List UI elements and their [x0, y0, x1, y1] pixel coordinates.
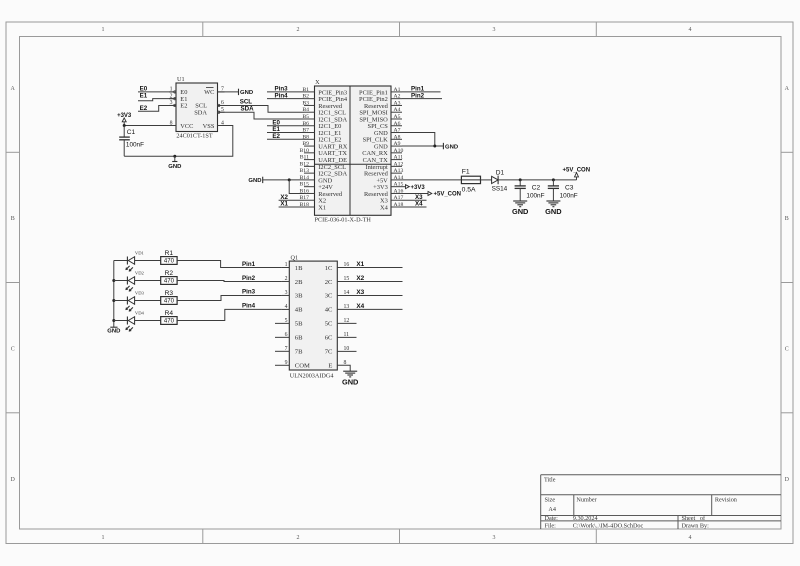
svg-text:2: 2 [297, 27, 300, 33]
svg-text:1: 1 [102, 27, 105, 33]
svg-text:Pin2: Pin2 [242, 275, 256, 282]
svg-text:A17: A17 [394, 195, 404, 201]
svg-text:1: 1 [285, 262, 288, 268]
svg-text:A13: A13 [394, 168, 404, 174]
power +3V3 [117, 113, 132, 126]
svg-text:VD2: VD2 [135, 271, 145, 276]
svg-text:B13: B13 [300, 168, 310, 174]
svg-text:VD3: VD3 [135, 291, 145, 296]
svg-text:2B: 2B [295, 279, 303, 286]
svg-text:SDA: SDA [194, 109, 207, 116]
svg-text:A15: A15 [394, 182, 404, 188]
ground GND at X.A9 [443, 143, 458, 151]
svg-text:Pin4: Pin4 [242, 303, 256, 310]
wire Q1 E pin8 to GND [337, 365, 350, 371]
svg-text:3B: 3B [295, 293, 303, 300]
capacitor C3 100nF [548, 180, 578, 201]
svg-text:4C: 4C [325, 307, 333, 314]
svg-text:6: 6 [285, 332, 288, 338]
svg-text:GND: GND [512, 207, 529, 216]
wire Q1 4C to X4 [337, 303, 402, 310]
svg-text:SS14: SS14 [492, 186, 508, 193]
junction GND B14 [288, 178, 291, 181]
svg-text:Pin4: Pin4 [275, 92, 289, 99]
wire F1 to D1 [481, 179, 492, 181]
svg-text:B: B [11, 216, 15, 222]
wire VD2 to R2 [135, 280, 161, 282]
svg-text:X4: X4 [356, 303, 364, 310]
svg-text:4: 4 [689, 27, 692, 33]
capacitor C2 100nF [515, 180, 545, 201]
svg-text:E: E [328, 363, 332, 370]
svg-text:470: 470 [164, 319, 175, 325]
svg-text:A2: A2 [394, 94, 401, 100]
svg-text:6B: 6B [295, 335, 303, 342]
svg-text:100nF: 100nF [126, 142, 144, 149]
svg-text:U1: U1 [177, 76, 185, 83]
svg-text:A9: A9 [394, 141, 401, 147]
svg-text:12: 12 [344, 318, 350, 324]
GND bus for LEDs [113, 261, 115, 328]
svg-text:A11: A11 [394, 155, 404, 161]
svg-text:2: 2 [285, 276, 288, 282]
svg-text:A5: A5 [394, 114, 401, 120]
svg-text:7B: 7B [295, 349, 303, 356]
svg-text:GND: GND [107, 329, 120, 335]
svg-text:A18: A18 [394, 202, 404, 208]
svg-text:C: C [785, 347, 789, 353]
svg-text:C2: C2 [532, 185, 541, 192]
svg-text:470: 470 [164, 259, 175, 265]
svg-text:R1: R1 [165, 250, 174, 257]
transistor array Q1 ULN2003AIDG4 body [289, 255, 337, 380]
wire SDA U1 pin5 to X.B5 [218, 105, 305, 119]
svg-text:X1: X1 [318, 204, 326, 211]
diode D1 SS14 [492, 169, 508, 192]
svg-text:E0: E0 [140, 85, 148, 92]
svg-text:2: 2 [297, 535, 300, 541]
net label E2 wire to U1 pin3 [138, 105, 176, 112]
ground GND under C3 [545, 201, 562, 216]
svg-text:B9: B9 [302, 141, 309, 147]
junction GND A7/A9 [433, 145, 436, 148]
wire X2 to X.B17 [279, 194, 304, 201]
svg-text:1C: 1C [325, 265, 333, 272]
wire VD1 to R1 [135, 260, 161, 262]
svg-text:D: D [785, 477, 790, 483]
svg-text:C: C [11, 347, 15, 353]
wire R3 to Q1 3B net Pin3 [177, 289, 282, 301]
svg-text:Pin3: Pin3 [242, 289, 256, 296]
svg-text:WC: WC [204, 89, 214, 96]
svg-text:1: 1 [102, 535, 105, 541]
svg-text:PCIE-036-01-X-D-TH: PCIE-036-01-X-D-TH [315, 216, 372, 223]
svg-text:4: 4 [689, 535, 692, 541]
svg-text:B5: B5 [302, 114, 309, 120]
svg-text:C3: C3 [565, 185, 574, 192]
LED VD3 [112, 291, 144, 312]
junction +3V3/C1/VCC [123, 124, 126, 127]
svg-text:9: 9 [285, 360, 288, 366]
power +3V3 at X.A15 [402, 185, 425, 191]
wire VD4 to R4 [135, 320, 161, 322]
power +5V_CON at X.A16 [402, 191, 461, 197]
wire Q1 1C to X1 [337, 261, 402, 268]
LED VD1 [114, 251, 145, 272]
ground GND at U1 WC [239, 89, 254, 97]
svg-text:470: 470 [164, 279, 175, 285]
svg-text:File:: File: [545, 523, 557, 530]
ground GND at X.B14 [248, 177, 262, 185]
svg-text:4: 4 [285, 304, 288, 310]
svg-text:A4: A4 [548, 506, 556, 513]
svg-text:10: 10 [344, 346, 350, 352]
svg-text:R2: R2 [165, 270, 174, 277]
wire X.A17 to X3 [402, 194, 427, 201]
svg-text:E2: E2 [180, 103, 187, 110]
svg-text:A8: A8 [394, 134, 401, 140]
svg-text:24C01CT-1ST: 24C01CT-1ST [176, 133, 212, 140]
svg-text:VD1: VD1 [135, 251, 145, 256]
svg-text:6C: 6C [325, 335, 333, 342]
svg-text:B11: B11 [300, 155, 309, 161]
svg-text:2C: 2C [325, 279, 333, 286]
svg-text:A10: A10 [394, 148, 404, 154]
svg-text:B4: B4 [302, 107, 309, 113]
svg-text:GND: GND [342, 377, 359, 386]
svg-text:3: 3 [285, 290, 288, 296]
svg-text:B3: B3 [302, 100, 309, 106]
svg-text:A3: A3 [394, 100, 401, 106]
svg-text:R3: R3 [165, 290, 174, 297]
svg-text:Size: Size [545, 497, 556, 504]
svg-text:B15: B15 [300, 182, 310, 188]
ground GND at LED bus [107, 327, 120, 334]
wire X.A2 to Pin2 [402, 92, 442, 99]
svg-text:X3: X3 [356, 289, 364, 296]
resistor R2 470 [161, 270, 177, 285]
junction C3 [552, 178, 555, 181]
svg-text:A16: A16 [394, 188, 404, 194]
Q1 pins [275, 262, 357, 370]
wire X.A1 to Pin1 [402, 86, 441, 93]
svg-text:X2: X2 [356, 275, 364, 282]
svg-text:11: 11 [344, 332, 350, 338]
svg-text:3: 3 [493, 535, 496, 541]
net label E0 wire to U1 pin1 [138, 85, 176, 92]
svg-text:+3V3: +3V3 [411, 185, 426, 191]
svg-text:D1: D1 [496, 169, 505, 176]
svg-text:B: B [785, 216, 789, 222]
svg-text:X1: X1 [356, 261, 364, 268]
svg-text:C:\Work\..\IM-4DO.SchDoc: C:\Work\..\IM-4DO.SchDoc [573, 523, 644, 530]
connector X pin names and numbers [300, 87, 404, 211]
svg-text:X1: X1 [280, 201, 288, 208]
svg-text:GND: GND [248, 178, 261, 184]
svg-text:5: 5 [285, 318, 288, 324]
LED VD2 [112, 271, 144, 292]
svg-text:Pin2: Pin2 [411, 92, 425, 99]
svg-text:GND: GND [240, 90, 253, 96]
wire R2 to Q1 2B net Pin2 [177, 275, 282, 282]
svg-text:R4: R4 [165, 310, 174, 317]
svg-text:COM: COM [295, 363, 310, 370]
svg-text:5C: 5C [325, 321, 333, 328]
wire Pin4 to X.B2 [267, 92, 304, 99]
svg-text:GND: GND [168, 164, 181, 170]
svg-text:7: 7 [285, 346, 288, 352]
net label E1 wire to U1 pin2 [138, 93, 176, 101]
wire X.A18 to X4 [402, 201, 427, 208]
resistor R1 470 [161, 250, 177, 265]
svg-text:E2: E2 [140, 105, 148, 112]
wire +3V3 to U1 VCC pin8 [124, 125, 176, 127]
wire +5V rail X.A14 to F1 [402, 179, 462, 181]
svg-text:A1: A1 [394, 87, 401, 93]
svg-text:E1: E1 [140, 93, 148, 100]
svg-text:B10: B10 [300, 148, 310, 154]
svg-text:5B: 5B [295, 321, 303, 328]
svg-text:VCC: VCC [180, 123, 193, 130]
svg-text:C1: C1 [127, 129, 136, 136]
wire Q1 2C to X2 [337, 275, 402, 282]
svg-text:GND: GND [445, 144, 458, 150]
svg-text:4B: 4B [295, 307, 303, 314]
wire E0 to X.B6 [267, 119, 304, 126]
svg-text:1B: 1B [295, 265, 303, 272]
wire X.A9 GND [402, 145, 443, 147]
svg-text:100nF: 100nF [560, 192, 578, 199]
wire D1 to +5V_CON [498, 179, 576, 181]
svg-text:ULN2003AIDG4: ULN2003AIDG4 [290, 373, 334, 380]
connector X PCIE-036-01-X-D-TH body [315, 79, 392, 223]
svg-text:0.5A: 0.5A [462, 186, 476, 193]
svg-text:A6: A6 [394, 121, 401, 127]
svg-text:E2: E2 [272, 133, 280, 140]
IC U1 24C01CT-1ST EEPROM body [169, 76, 225, 140]
ground GND under U1 [168, 156, 181, 170]
wire Q1 3C to X3 [337, 289, 402, 296]
svg-text:3: 3 [493, 27, 496, 33]
wire X1 to X.B18 [279, 201, 304, 208]
fuse F1 0.5A [461, 169, 480, 194]
resistor R3 470 [161, 290, 177, 305]
svg-text:Date:: Date: [545, 515, 559, 522]
svg-text:VD4: VD4 [135, 311, 145, 316]
svg-text:Number: Number [576, 497, 596, 504]
svg-text:SDA: SDA [241, 105, 255, 112]
svg-text:9.30.2024: 9.30.2024 [573, 515, 598, 522]
svg-text:GND: GND [545, 207, 562, 216]
wire E1 to X.B7 [267, 126, 304, 133]
wire VD3 to R3 [135, 300, 161, 302]
wire GND rail C1 to U1 VSS pin4 [124, 126, 233, 157]
wire E2 to X.B8 [267, 133, 304, 140]
svg-text:X4: X4 [415, 201, 423, 208]
svg-text:Revision: Revision [715, 497, 737, 504]
svg-text:A14: A14 [394, 175, 404, 181]
resistor R4 470 [161, 310, 177, 325]
ground GND at Q1 E [342, 371, 359, 386]
svg-text:A4: A4 [394, 107, 401, 113]
wire R1 to Q1 1B net Pin1 [177, 261, 282, 268]
wire X.A7 GND down to A9 [402, 133, 435, 147]
svg-text:F1: F1 [462, 169, 470, 176]
svg-text:Sheet of: Sheet of [682, 515, 706, 522]
svg-text:A12: A12 [394, 161, 404, 167]
svg-text:A7: A7 [394, 128, 401, 134]
junction C2 [519, 178, 522, 181]
capacitor C1 100nF [119, 126, 144, 157]
svg-text:D: D [11, 477, 16, 483]
junction GND rail [173, 155, 176, 158]
svg-text:Pin1: Pin1 [242, 261, 256, 268]
svg-text:VSS: VSS [203, 123, 215, 130]
svg-text:Drawn By:: Drawn By: [682, 523, 710, 530]
svg-text:3C: 3C [325, 293, 333, 300]
power +5V_CON at rail end [563, 167, 591, 180]
svg-text:A: A [785, 86, 790, 92]
svg-text:+5V_CON: +5V_CON [563, 167, 591, 173]
ground GND under C2 [512, 201, 529, 216]
wire GND to X.B14 [263, 179, 304, 181]
svg-text:Q1: Q1 [291, 255, 299, 262]
svg-text:B12: B12 [300, 161, 310, 167]
wire GND branch to X.B16 [289, 180, 304, 194]
svg-text:A: A [11, 86, 16, 92]
svg-text:X: X [315, 79, 320, 86]
svg-text:100nF: 100nF [526, 192, 544, 199]
wire R4 to Q1 4B net Pin4 [177, 303, 282, 321]
wire U1 WC pin7 to GND [218, 91, 239, 93]
svg-text:+5V_CON: +5V_CON [434, 192, 462, 198]
wire SCL U1 pin6 to X.B4 [218, 99, 305, 113]
svg-text:7C: 7C [325, 349, 333, 356]
svg-text:470: 470 [164, 299, 175, 305]
wire Pin3 to X.B1 [267, 86, 304, 93]
svg-text:Title: Title [544, 477, 556, 484]
LED VD4 [112, 311, 144, 332]
svg-text:X4: X4 [380, 204, 389, 211]
